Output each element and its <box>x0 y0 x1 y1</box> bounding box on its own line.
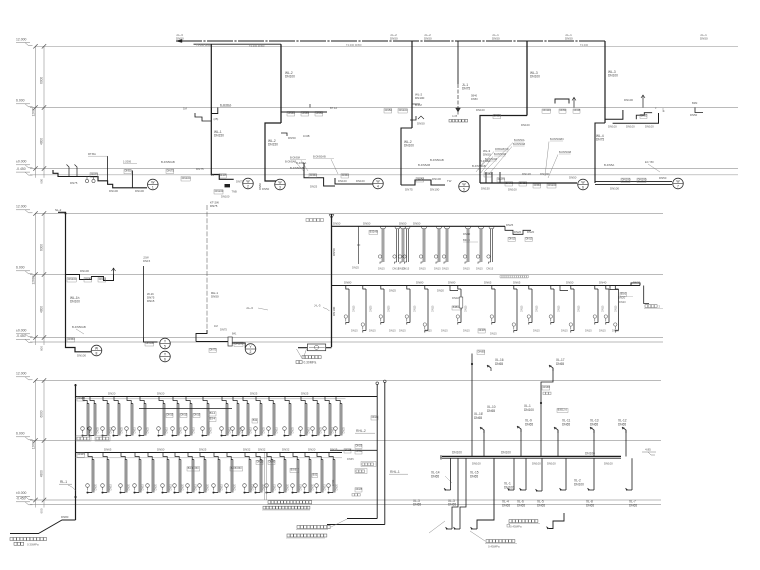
svg-text:DN100: DN100 <box>624 98 633 102</box>
svg-text:DN15: DN15 <box>441 329 448 333</box>
svg-text:DN15: DN15 <box>561 329 568 333</box>
svg-text:RT.BA: RT.BA <box>88 152 96 156</box>
svg-text:DN65: DN65 <box>479 328 486 332</box>
svg-text:DN80: DN80 <box>448 281 456 285</box>
svg-text:DN15: DN15 <box>487 267 494 271</box>
svg-text:DN100: DN100 <box>182 176 191 180</box>
svg-text:B3-4: B3-4 <box>210 416 216 420</box>
svg-text:4800: 4800 <box>40 138 44 145</box>
svg-text:J-L-3: J-L-3 <box>246 306 253 310</box>
svg-text:DN65: DN65 <box>431 474 439 478</box>
svg-text:DN25: DN25 <box>319 426 322 433</box>
svg-text:B-DN50AB: B-DN50AB <box>290 166 304 170</box>
svg-text:DN50: DN50 <box>417 122 425 126</box>
svg-text:DN20: DN20 <box>308 448 316 452</box>
svg-text:DN15: DN15 <box>615 305 618 312</box>
svg-text:DN50: DN50 <box>68 337 76 341</box>
svg-text:DN100: DN100 <box>608 74 618 78</box>
svg-text:DN65: DN65 <box>484 281 492 285</box>
svg-text:DN65: DN65 <box>104 448 112 452</box>
svg-text:DN50: DN50 <box>424 37 432 41</box>
svg-text:DN100: DN100 <box>77 354 86 358</box>
svg-text:B-DN5AB: B-DN5AB <box>418 163 430 167</box>
svg-text:DN25: DN25 <box>352 266 359 270</box>
svg-text:DN50: DN50 <box>211 295 219 299</box>
svg-text:DN25: DN25 <box>220 173 227 177</box>
svg-text:B5x3: B5x3 <box>621 292 627 295</box>
svg-text:DN65: DN65 <box>513 281 521 285</box>
svg-text:DN40: DN40 <box>78 396 86 400</box>
svg-text:DN15: DN15 <box>434 267 441 271</box>
svg-text:DN75: DN75 <box>405 188 413 192</box>
svg-text:6: 6 <box>164 358 166 362</box>
svg-text:DN20: DN20 <box>335 483 338 490</box>
svg-text:DN15: DN15 <box>578 305 581 312</box>
svg-text:2: 2 <box>250 350 252 354</box>
svg-text:12.000: 12.000 <box>16 38 26 42</box>
svg-text:B3 B3: B3 B3 <box>291 467 299 471</box>
svg-text:DN100: DN100 <box>574 482 584 486</box>
svg-text:600: 600 <box>40 508 44 513</box>
svg-text:DN20: DN20 <box>370 305 373 312</box>
svg-text:DN100: DN100 <box>645 124 654 128</box>
svg-text:DN25: DN25 <box>356 443 363 447</box>
svg-text:4: 4 <box>377 185 379 189</box>
svg-text:12680: 12680 <box>31 275 35 284</box>
svg-text:DN15: DN15 <box>169 483 172 490</box>
svg-text:DN15: DN15 <box>476 267 483 271</box>
svg-text:DN15: DN15 <box>147 299 155 303</box>
svg-text:SL-2: SL-2 <box>55 208 62 212</box>
svg-text:DN75: DN75 <box>70 181 78 185</box>
svg-text:DN100: DN100 <box>501 451 511 455</box>
svg-text:DN25: DN25 <box>250 392 258 396</box>
svg-text:1N4B: 1N4B <box>303 134 310 138</box>
svg-text:B-DN50AB: B-DN50AB <box>161 160 175 164</box>
svg-text:EC.YBI: EC.YBI <box>645 160 654 164</box>
svg-text:DN65: DN65 <box>517 503 525 507</box>
svg-text:DN65: DN65 <box>543 385 551 389</box>
svg-text:DN65: DN65 <box>556 362 564 366</box>
svg-text:B-DN50AB: B-DN50AB <box>72 325 86 329</box>
svg-text:4800: 4800 <box>40 306 44 313</box>
svg-text:B33.5: B33.5 <box>463 238 470 242</box>
svg-text:DN15: DN15 <box>509 236 516 240</box>
svg-text:DN65: DN65 <box>590 422 598 426</box>
svg-text:B32AB: B32AB <box>370 229 378 233</box>
svg-text:2: 2 <box>247 185 249 189</box>
svg-text:DN75: DN75 <box>210 347 217 351</box>
svg-text:DN25: DN25 <box>179 426 182 433</box>
svg-text:DN100: DN100 <box>604 461 613 465</box>
svg-text:DN32: DN32 <box>633 281 641 285</box>
svg-text:DN15: DN15 <box>399 329 406 333</box>
svg-text:DN15: DN15 <box>442 267 449 271</box>
svg-text:DN50: DN50 <box>417 177 425 181</box>
svg-text:B7.1A: B7.1A <box>330 106 337 110</box>
svg-text:DN75: DN75 <box>210 204 218 208</box>
svg-text:DN100: DN100 <box>285 75 295 79</box>
svg-text:DN100: DN100 <box>135 189 144 193</box>
svg-text:DN20: DN20 <box>127 483 130 490</box>
svg-text:DN65: DN65 <box>332 479 335 486</box>
svg-text:DN100: DN100 <box>472 461 481 465</box>
svg-text:12680: 12680 <box>31 107 35 116</box>
svg-text:B-DN50AB: B-DN50AB <box>430 158 444 162</box>
svg-text:DN50: DN50 <box>316 111 324 115</box>
svg-text:DN100: DN100 <box>70 300 80 304</box>
svg-text:B-DN50AB: B-DN50AB <box>472 164 486 168</box>
svg-text:-0.450: -0.450 <box>16 334 26 338</box>
svg-text:5: 5 <box>164 345 166 349</box>
svg-text:DN25: DN25 <box>342 426 345 433</box>
svg-text:DN15: DN15 <box>403 267 410 271</box>
svg-text:DN15: DN15 <box>602 305 605 312</box>
svg-text:DN20: DN20 <box>527 230 535 234</box>
svg-text:DN15: DN15 <box>141 483 144 490</box>
svg-text:DN15: DN15 <box>463 329 470 333</box>
svg-text:DN50: DN50 <box>566 281 574 285</box>
svg-text:DN15: DN15 <box>612 329 619 333</box>
svg-text:DN100: DN100 <box>530 75 540 79</box>
svg-text:DN100: DN100 <box>146 341 155 345</box>
svg-text:DN50: DN50 <box>157 448 165 452</box>
svg-text:DN15: DN15 <box>369 329 376 333</box>
svg-text:DN100: DN100 <box>338 179 347 183</box>
svg-text:DN50: DN50 <box>262 187 270 191</box>
svg-text:DN25: DN25 <box>209 426 212 433</box>
svg-text:DN75: DN75 <box>498 177 506 181</box>
svg-text:DN100: DN100 <box>508 188 517 192</box>
svg-text:DN15: DN15 <box>425 329 432 333</box>
svg-text:DN65: DN65 <box>502 503 510 507</box>
svg-text:DN65: DN65 <box>537 503 545 507</box>
svg-text:B-DN50AB: B-DN50AB <box>494 153 507 156</box>
svg-text:6: 6 <box>582 186 584 190</box>
svg-text:B-DN50ABC: B-DN50ABC <box>550 138 564 141</box>
svg-text:DN75: DN75 <box>596 138 604 142</box>
svg-text:T2.000 DN50: T2.000 DN50 <box>249 44 265 48</box>
svg-text:DN65: DN65 <box>413 503 421 507</box>
svg-text:B-1M: B-1M <box>415 103 422 107</box>
svg-text:B3512.6: B3512.6 <box>558 408 568 411</box>
svg-text:DN15: DN15 <box>249 426 252 433</box>
svg-text:DN100: DN100 <box>399 108 408 112</box>
svg-text:DN100: DN100 <box>415 96 425 100</box>
svg-text:DN100: DN100 <box>109 189 118 193</box>
svg-text:DN75: DN75 <box>196 167 204 171</box>
svg-text:DN100: DN100 <box>585 452 595 456</box>
svg-text:DN20: DN20 <box>269 459 276 463</box>
svg-text:DN100: DN100 <box>524 408 534 412</box>
svg-text:B-DN50AB: B-DN50AB <box>313 155 326 159</box>
svg-text:DN150: DN150 <box>481 187 490 191</box>
svg-text:DN50: DN50 <box>332 248 336 256</box>
svg-text:5B46: 5B46 <box>471 94 478 98</box>
svg-text:6.000: 6.000 <box>16 99 25 103</box>
svg-text:DN50: DN50 <box>390 37 398 41</box>
svg-text:DN15: DN15 <box>353 305 356 312</box>
svg-text:DN100: DN100 <box>404 144 414 148</box>
svg-text:DN15: DN15 <box>463 267 470 271</box>
svg-text:±0.000: ±0.000 <box>16 160 26 164</box>
svg-text:DN20: DN20 <box>108 392 116 396</box>
svg-text:1M: 1M <box>183 107 188 111</box>
svg-text:B-DN5M: B-DN5M <box>290 156 300 160</box>
svg-text:DN15: DN15 <box>585 329 592 333</box>
svg-text:DN15: DN15 <box>307 426 310 433</box>
svg-text:6000: 6000 <box>40 244 44 251</box>
svg-text:DN25: DN25 <box>330 448 338 452</box>
svg-text:DN20: DN20 <box>619 300 626 304</box>
svg-text:B2M: B2M <box>692 101 697 105</box>
svg-text:B-DN5FA: B-DN5FA <box>220 103 232 107</box>
svg-text:DN65: DN65 <box>302 111 310 115</box>
svg-text:DN50: DN50 <box>342 173 350 177</box>
svg-text:B-DN5A: B-DN5A <box>604 163 614 167</box>
svg-text:DN65: DN65 <box>470 474 478 478</box>
svg-text:DN65: DN65 <box>586 503 594 507</box>
svg-text:DN100: DN100 <box>430 188 440 192</box>
svg-text:DN15: DN15 <box>192 426 195 433</box>
svg-text:DN25: DN25 <box>345 448 352 452</box>
svg-text:DN65: DN65 <box>474 416 482 420</box>
svg-text:DN20: DN20 <box>286 483 289 490</box>
svg-text:DN40: DN40 <box>599 281 607 285</box>
svg-text:-0.450: -0.450 <box>16 497 26 501</box>
svg-text:DN15: DN15 <box>558 305 561 312</box>
svg-text:RHL-2: RHL-2 <box>356 429 366 433</box>
svg-text:DN50: DN50 <box>483 153 491 157</box>
svg-text:DN15: DN15 <box>465 305 468 312</box>
svg-text:DN20: DN20 <box>181 483 184 490</box>
svg-text:DN50: DN50 <box>700 37 708 41</box>
svg-text:DN20: DN20 <box>206 483 209 490</box>
svg-text:DN40: DN40 <box>356 449 363 453</box>
svg-text:(25): (25) <box>214 117 219 121</box>
svg-text:DN65: DN65 <box>562 422 570 426</box>
svg-text:DN65: DN65 <box>78 452 86 456</box>
svg-text:DN15: DN15 <box>133 426 136 433</box>
svg-text:DN50: DN50 <box>310 173 318 177</box>
svg-text:1M: 1M <box>214 324 218 328</box>
svg-text:DN15: DN15 <box>323 483 326 490</box>
svg-text:B-DN50AB: B-DN50AB <box>513 143 526 146</box>
svg-text:0.45MPa: 0.45MPa <box>510 525 522 529</box>
svg-text:DN50: DN50 <box>85 277 93 281</box>
svg-text:DN100: DN100 <box>547 461 556 465</box>
svg-text:DN50: DN50 <box>569 176 577 180</box>
svg-text:DN25: DN25 <box>372 415 379 419</box>
svg-text:±0.000: ±0.000 <box>16 491 26 495</box>
svg-text:DN15: DN15 <box>273 483 276 490</box>
svg-text:DN50: DN50 <box>413 221 421 225</box>
svg-text:DN15: DN15 <box>536 305 539 312</box>
svg-text:B-DN5AB: B-DN5AB <box>285 160 297 164</box>
svg-text:1-2006: 1-2006 <box>123 160 132 164</box>
svg-text:DN20: DN20 <box>233 483 236 490</box>
svg-text:7: 7 <box>677 185 679 189</box>
svg-text:DN75: DN75 <box>91 172 99 176</box>
svg-text:DN65: DN65 <box>478 349 486 353</box>
svg-text:T2.000: T2.000 <box>580 43 589 47</box>
svg-text:DN40: DN40 <box>288 111 296 115</box>
svg-text:DN65: DN65 <box>448 503 456 507</box>
svg-text:DN100: DN100 <box>221 195 230 199</box>
svg-text:DN100: DN100 <box>80 269 89 273</box>
svg-text:DN25: DN25 <box>96 426 99 433</box>
svg-text:DN20: DN20 <box>311 483 314 490</box>
svg-text:DN100: DN100 <box>610 187 619 191</box>
svg-text:DN65: DN65 <box>495 362 503 366</box>
svg-text:DN50: DN50 <box>659 176 667 180</box>
svg-text:DN50: DN50 <box>492 37 500 41</box>
svg-text:600: 600 <box>40 346 44 351</box>
svg-text:DN32: DN32 <box>243 448 251 452</box>
svg-text:0.30MPa: 0.30MPa <box>27 542 39 546</box>
svg-text:T2.000 DN50: T2.000 DN50 <box>346 43 362 47</box>
svg-text:B3 B3 B3: B3 B3 B3 <box>188 466 200 470</box>
svg-text:DN45: DN45 <box>574 108 581 112</box>
svg-text:-0.450: -0.450 <box>16 167 26 171</box>
svg-text:B41: B41 <box>232 333 237 336</box>
svg-text:DN75: DN75 <box>462 87 470 91</box>
svg-text:DN150: DN150 <box>214 134 224 138</box>
svg-text:B3 B3 B3: B3 B3 B3 <box>231 466 243 470</box>
svg-text:DN20: DN20 <box>388 305 391 312</box>
svg-text:TNB: TNB <box>232 190 237 194</box>
svg-text:RHL-1: RHL-1 <box>390 470 400 474</box>
svg-text:6000: 6000 <box>40 77 44 84</box>
svg-text:DN65: DN65 <box>487 409 495 413</box>
svg-text:DN15: DN15 <box>432 305 435 312</box>
svg-text:DN20: DN20 <box>154 483 157 490</box>
svg-text:DN80: DN80 <box>61 515 69 519</box>
svg-text:T2.000 DN50: T2.000 DN50 <box>196 43 212 47</box>
svg-text:DN100: DN100 <box>452 451 462 455</box>
svg-text:DN100: DN100 <box>215 189 224 193</box>
svg-text:DN20: DN20 <box>618 296 626 300</box>
svg-text:B-DN50AB: B-DN50AB <box>559 151 572 154</box>
svg-text:DN25: DN25 <box>310 185 318 189</box>
svg-text:DN50: DN50 <box>560 108 567 112</box>
svg-text:DN65: DN65 <box>525 422 533 426</box>
svg-text:DN15: DN15 <box>378 267 385 271</box>
svg-text:0.30MPa: 0.30MPa <box>304 361 317 365</box>
svg-text:DN100: DN100 <box>356 179 365 183</box>
svg-text:DN50AB MF: DN50AB MF <box>495 148 510 151</box>
svg-text:DN50: DN50 <box>399 221 407 225</box>
svg-text:DN100: DN100 <box>543 108 552 112</box>
svg-text:4-35: 4-35 <box>452 114 458 118</box>
svg-text:DN15: DN15 <box>414 305 417 312</box>
svg-text:6.000: 6.000 <box>16 266 25 270</box>
svg-text:DN50: DN50 <box>494 114 502 118</box>
svg-text:DN50: DN50 <box>565 37 573 41</box>
svg-text:DN15: DN15 <box>533 329 540 333</box>
svg-text:DN100: DN100 <box>332 306 336 316</box>
svg-text:DN100: DN100 <box>532 461 541 465</box>
svg-text:DN15: DN15 <box>275 426 278 433</box>
svg-text:DN100: DN100 <box>622 177 631 181</box>
svg-text:DN75: DN75 <box>220 328 227 332</box>
svg-text:B-DN5A: B-DN5A <box>296 161 306 165</box>
svg-text:6000: 6000 <box>40 410 44 417</box>
svg-text:B-DN5A: B-DN5A <box>480 159 490 163</box>
svg-text:DN25: DN25 <box>506 223 514 227</box>
svg-text:DN50: DN50 <box>471 97 478 101</box>
svg-text:4.85: 4.85 <box>645 448 651 452</box>
svg-text:DN75: DN75 <box>167 168 175 172</box>
svg-text:DN15: DN15 <box>599 329 606 333</box>
svg-text:DN100: DN100 <box>476 108 485 112</box>
svg-text:J-L-3: J-L-3 <box>314 304 321 308</box>
svg-text:DN25: DN25 <box>120 426 123 433</box>
svg-text:DN20: DN20 <box>514 230 522 234</box>
svg-text:DN15: DN15 <box>419 267 426 271</box>
svg-text:DN120: DN120 <box>522 172 531 176</box>
svg-text:DN15: DN15 <box>490 332 497 336</box>
svg-text:DN15: DN15 <box>526 236 533 240</box>
svg-text:DN15: DN15 <box>143 259 151 263</box>
svg-text:DN25: DN25 <box>356 487 363 491</box>
svg-text:600: 600 <box>40 178 44 183</box>
svg-text:8: 8 <box>96 352 98 356</box>
svg-text:B-DN50A: B-DN50A <box>514 139 525 142</box>
svg-text:DN50: DN50 <box>485 172 493 176</box>
svg-text:DN15: DN15 <box>167 412 174 416</box>
svg-text:DN32: DN32 <box>258 448 266 452</box>
svg-text:DN50: DN50 <box>333 221 341 225</box>
svg-text:DN20: DN20 <box>437 289 444 293</box>
svg-text:DN15: DN15 <box>389 329 396 333</box>
svg-text:DN20: DN20 <box>257 459 264 463</box>
svg-text:DN15: DN15 <box>521 305 524 312</box>
svg-text:B32: B32 <box>313 472 318 476</box>
svg-text:DN100: DN100 <box>626 124 635 128</box>
svg-text:DN65: DN65 <box>618 422 626 426</box>
svg-text:DN100: DN100 <box>638 177 647 181</box>
svg-text:DN50: DN50 <box>288 136 296 140</box>
svg-text:DN50: DN50 <box>641 113 648 117</box>
svg-text:DN65: DN65 <box>347 457 354 461</box>
svg-text:0.45MPa: 0.45MPa <box>488 545 500 549</box>
svg-text:DN100: DN100 <box>432 177 441 181</box>
svg-text:DN150: DN150 <box>268 143 278 147</box>
svg-text:6.000: 6.000 <box>16 432 25 436</box>
svg-text:DN100: DN100 <box>521 123 530 127</box>
svg-text:DN15: DN15 <box>181 412 188 416</box>
svg-text:DN100: DN100 <box>68 277 77 281</box>
svg-text:RL-1: RL-1 <box>60 480 67 484</box>
svg-text:B3-4: B3-4 <box>210 411 216 415</box>
svg-text:DN20: DN20 <box>157 392 165 396</box>
svg-text:±0.000: ±0.000 <box>16 329 26 333</box>
svg-text:12.000: 12.000 <box>16 372 26 376</box>
svg-text:5: 5 <box>463 188 465 192</box>
svg-text:DN25: DN25 <box>291 426 294 433</box>
svg-text:12680: 12680 <box>31 440 35 449</box>
svg-text:DN15: DN15 <box>220 483 223 490</box>
svg-text:DN25: DN25 <box>301 392 309 396</box>
svg-text:4800: 4800 <box>40 470 44 477</box>
svg-text:DN100: DN100 <box>608 124 617 128</box>
svg-text:DN25: DN25 <box>146 426 149 433</box>
svg-text:DN15: DN15 <box>194 483 197 490</box>
svg-text:DN15: DN15 <box>109 483 112 490</box>
svg-text:3: 3 <box>279 186 281 190</box>
svg-text:DN100: DN100 <box>504 485 514 489</box>
